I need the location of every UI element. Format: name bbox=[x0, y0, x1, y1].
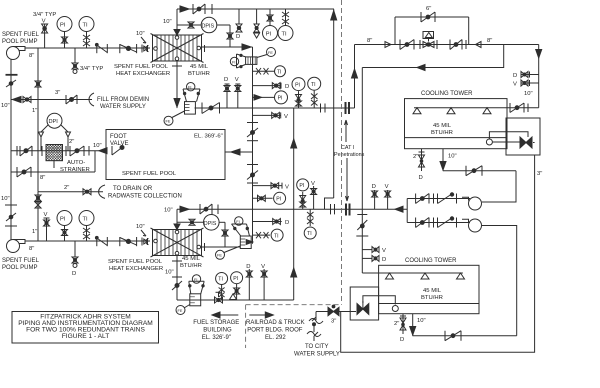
branch valve on x=38 drop bbox=[35, 48, 41, 100]
instrument TI above y=108 header bbox=[308, 77, 321, 108]
flow element FE (train1 collector) bbox=[257, 48, 276, 58]
svg-text:FE: FE bbox=[268, 51, 273, 55]
dashed building boundary vertical x=341 bbox=[341, 0, 343, 305]
bypass riser rejoin bbox=[94, 151, 96, 172]
arrow into HX2 top bbox=[180, 206, 189, 212]
wire: 10" header to strainer bbox=[11, 99, 92, 101]
x=38 drop to line 2 with valves bbox=[35, 192, 41, 241]
svg-text:DPIS: DPIS bbox=[204, 221, 217, 227]
svg-text:10": 10" bbox=[524, 91, 533, 97]
wire: main line 2 pump to HX2 bbox=[25, 240, 150, 242]
foot valve symbol inside pool bbox=[112, 146, 124, 156]
flanges on train2 header at x=330 bbox=[331, 204, 335, 214]
reducer into HX2 bbox=[142, 238, 149, 246]
svg-text:10": 10" bbox=[1, 196, 10, 202]
svg-text:SPENT FUEL POOL: SPENT FUEL POOL bbox=[114, 64, 169, 70]
arrow left on discharge header bbox=[395, 206, 403, 212]
arrow toward strainer bbox=[99, 148, 107, 154]
instrument TI above y=297.7 bbox=[216, 273, 228, 301]
bypass 6" line bbox=[395, 12, 469, 45]
svg-text:2": 2" bbox=[413, 154, 418, 160]
wire: down to pump1 suction bbox=[482, 171, 516, 202]
svg-text:WATER SUPPLY: WATER SUPPLY bbox=[294, 352, 340, 358]
label: FILL FROM DEMIN WATER SUPPLY bbox=[97, 97, 149, 110]
svg-text:PI: PI bbox=[276, 197, 281, 203]
wire: strainer main line bbox=[11, 150, 106, 152]
valve on 10" header bbox=[23, 97, 31, 103]
fill line gate valve bbox=[66, 95, 77, 104]
svg-text:D: D bbox=[285, 84, 289, 90]
wire: supply riser x=354.5 bbox=[354, 45, 356, 109]
spent fuel pool pump 1 bbox=[7, 47, 26, 60]
label 10" HX2 inlet bbox=[136, 224, 146, 236]
svg-text:PI: PI bbox=[299, 183, 304, 189]
stub D on top header bbox=[236, 9, 242, 40]
label: AUTO-STRAINER bbox=[60, 160, 90, 173]
svg-text:PI: PI bbox=[60, 23, 66, 29]
wire: HX1 top return riser bbox=[176, 9, 178, 34]
svg-text:FIGURE 1 - ALT: FIGURE 1 - ALT bbox=[62, 333, 110, 340]
V stub at y=115.4 bbox=[253, 112, 289, 120]
D stub on x=538.7 bbox=[513, 72, 539, 80]
pump1 discharge valves bbox=[407, 193, 470, 204]
wire: top return header y=9 bbox=[177, 8, 334, 10]
instrument TI on top header bbox=[278, 9, 293, 41]
svg-text:D: D bbox=[246, 264, 250, 270]
flange below valve bbox=[356, 235, 368, 237]
svg-text:BTU/HR: BTU/HR bbox=[180, 263, 202, 269]
svg-text:3": 3" bbox=[537, 171, 542, 177]
svg-text:D: D bbox=[400, 337, 404, 343]
wire: tower2 loop riser x=516.7 bbox=[482, 226, 517, 336]
junction node on line 2 bbox=[95, 236, 98, 239]
spent fuel pool pump 2 bbox=[7, 240, 26, 253]
svg-text:10": 10" bbox=[163, 19, 172, 25]
svg-text:D: D bbox=[372, 184, 376, 190]
svg-text:10": 10" bbox=[448, 154, 457, 160]
vent V above y=209.2 header bbox=[311, 181, 317, 209]
svg-text:WATER SUPPLY: WATER SUPPLY bbox=[100, 104, 146, 110]
wire: discharge riser x=293.7 bbox=[293, 108, 295, 300]
penetration sleeve on y=108 bbox=[346, 102, 350, 114]
globe valve with stem on y=297.7 bbox=[215, 292, 223, 303]
svg-text:V: V bbox=[382, 248, 386, 254]
instrument PI above y=209.2 header bbox=[297, 179, 309, 209]
title box bbox=[12, 312, 159, 344]
label: CAT I Penetrations with leader arrows bbox=[334, 145, 365, 158]
svg-text:EL. 326'-9": EL. 326'-9" bbox=[202, 335, 231, 341]
flange on header bbox=[211, 4, 213, 14]
flow arrows on riser x=293.7 bbox=[291, 139, 297, 148]
svg-text:D: D bbox=[419, 175, 423, 181]
arrow right (railroad side) bbox=[249, 312, 273, 318]
svg-text:V: V bbox=[235, 77, 239, 83]
D stub at y=221.5 bbox=[253, 219, 290, 227]
svg-text:HEAT EXCHANGER: HEAT EXCHANGER bbox=[116, 71, 170, 77]
arrow left on 10" header bbox=[13, 97, 22, 103]
V stub at y=185.6 bbox=[253, 183, 290, 191]
label: 45 MIL BTU/HR (tower2) bbox=[421, 288, 443, 301]
dashed boundary horizontal y=286 bbox=[246, 304, 342, 306]
svg-text:2": 2" bbox=[64, 185, 69, 191]
svg-text:POOL PUMP: POOL PUMP bbox=[2, 39, 37, 45]
svg-text:8": 8" bbox=[40, 175, 45, 181]
svg-text:TI: TI bbox=[282, 32, 287, 38]
control valve with actuator bbox=[420, 32, 437, 50]
PI sample line at y=97.4 bbox=[253, 91, 288, 104]
pipe break symbol on line 1 bbox=[97, 44, 108, 53]
svg-text:TO CITY: TO CITY bbox=[305, 344, 329, 350]
HX1 bottom outlet with flow element bbox=[174, 60, 180, 108]
svg-text:V: V bbox=[284, 114, 288, 120]
strainer bypass line bbox=[11, 171, 95, 173]
svg-text:TI: TI bbox=[83, 217, 88, 223]
svg-text:D: D bbox=[513, 73, 517, 79]
svg-text:8": 8" bbox=[29, 53, 34, 59]
jog connecting return header to train2 header bbox=[325, 198, 334, 209]
flow element FE (HX1 bottom) bbox=[164, 111, 185, 125]
flow indicator FI (HX2 outlet) bbox=[232, 217, 252, 249]
reducer on supply header bbox=[385, 42, 391, 48]
wire: HX1 outlet right to collector bbox=[202, 46, 253, 48]
label: FUEL STORAGE BUILDING EL. 326'-9" bbox=[193, 320, 239, 341]
svg-text:PI: PI bbox=[60, 217, 66, 223]
gate valve after strainer bbox=[70, 146, 84, 156]
svg-text:V: V bbox=[513, 82, 517, 88]
svg-text:BTU/HR: BTU/HR bbox=[188, 71, 210, 77]
label: SPENT FUEL POOL PUMP (upper) bbox=[2, 32, 40, 45]
svg-text:TI: TI bbox=[307, 231, 312, 237]
svg-text:SPENT FUEL: SPENT FUEL bbox=[2, 258, 40, 264]
svg-text:D: D bbox=[224, 77, 228, 83]
auto-strainer bbox=[42, 145, 66, 169]
brace to FILL FROM DEMIN bbox=[89, 93, 94, 106]
cooling tower 1 bbox=[405, 99, 539, 149]
dashed boundary vertical x=244.3 bbox=[245, 305, 247, 348]
valve on tower1 inlet bbox=[510, 103, 528, 113]
tower1 2" drain bbox=[413, 149, 425, 181]
gate valve on supply bbox=[400, 40, 414, 50]
flow indicator FI (HX2 bottom) bbox=[189, 275, 205, 306]
svg-text:HEAT EXCHANGER: HEAT EXCHANGER bbox=[109, 266, 163, 272]
svg-text:3/4" TYP: 3/4" TYP bbox=[80, 66, 103, 72]
D stub above y=108 header bbox=[224, 77, 230, 108]
TI capillary stub at y=235.1 bbox=[253, 229, 284, 241]
seismic triangle on y=297.7 bbox=[230, 294, 237, 300]
svg-text:SPENT FUEL: SPENT FUEL bbox=[2, 32, 40, 38]
svg-text:V: V bbox=[285, 185, 289, 191]
collector isolation valves and pool branch bbox=[247, 123, 258, 184]
V/D stubs on tower2 supply bbox=[362, 247, 386, 263]
pipe break symbol on line 2 bbox=[97, 237, 108, 246]
svg-text:1": 1" bbox=[32, 229, 37, 235]
junction node on line 1 bbox=[95, 43, 98, 46]
wire: x=38 drop continues to strainer line bbox=[37, 100, 39, 151]
wire: main line 1 pump to HX1 bbox=[25, 47, 150, 49]
label: RAILROAD & TRUCK PORT BLDG. ROOF EL. 292 bbox=[246, 320, 305, 341]
label: TO CITY WATER SUPPLY bbox=[294, 344, 340, 358]
svg-text:2": 2" bbox=[69, 139, 74, 145]
svg-text:TO DRAIN OR: TO DRAIN OR bbox=[113, 186, 153, 192]
flow element FE (HX2 outlet) bbox=[216, 246, 241, 259]
svg-text:FI: FI bbox=[232, 60, 235, 64]
svg-text:FE: FE bbox=[166, 120, 171, 124]
heat exchanger 1 (SPENT FUEL POOL HEAT EXCHANGER) bbox=[148, 30, 205, 67]
label: 45 MIL BTU/HR (HX2) bbox=[180, 256, 202, 269]
svg-text:V: V bbox=[311, 181, 315, 187]
V stub above y=108 header bbox=[235, 77, 241, 108]
svg-text:CAT I: CAT I bbox=[341, 145, 354, 151]
flow arrow down bbox=[536, 50, 542, 59]
HX2 bottom outlet bbox=[172, 255, 182, 300]
arrow into HX1 top bbox=[180, 6, 189, 12]
vent stub V 1" on line 2 bbox=[44, 212, 50, 241]
svg-text:10": 10" bbox=[165, 270, 174, 276]
valve on top return header bbox=[193, 4, 205, 14]
V stub on x=538.7 bbox=[513, 80, 539, 88]
svg-text:TI: TI bbox=[277, 69, 281, 75]
arrow left on y=67.5 bbox=[417, 65, 425, 71]
tower2 2" drain bbox=[394, 314, 406, 343]
instrument PI above y=297.7 bbox=[231, 272, 243, 300]
wire: HX2 outlet right bbox=[202, 246, 240, 248]
wire: HX1 return riser x=333.7 bbox=[333, 9, 335, 198]
flow element FE (HX2 bottom) bbox=[176, 305, 190, 315]
svg-text:8": 8" bbox=[367, 38, 372, 44]
svg-text:D: D bbox=[236, 34, 240, 40]
tower1 makeup sub-box bbox=[489, 118, 540, 155]
svg-text:POOL PUMP: POOL PUMP bbox=[2, 265, 37, 271]
gate valve before strainer bbox=[20, 146, 32, 156]
flange pair on y=108 bbox=[321, 104, 326, 113]
wire: into tower2 deck bbox=[362, 272, 463, 274]
arrow on HX1 outlet bbox=[242, 44, 251, 50]
svg-text:TI: TI bbox=[83, 23, 88, 29]
svg-text:10": 10" bbox=[93, 143, 102, 149]
svg-text:D: D bbox=[72, 271, 76, 277]
flow indicator FI (HX1 bottom) bbox=[183, 83, 200, 115]
label 10" at HX1 inlet with leader arrow bbox=[136, 31, 146, 43]
drain stub D below line 2 bbox=[72, 241, 78, 277]
instrument DPI over strainer bbox=[39, 113, 71, 151]
svg-text:V: V bbox=[42, 19, 46, 25]
arrow left (fuel storage side) bbox=[212, 312, 238, 318]
brace to drain text bbox=[99, 185, 105, 198]
svg-text:PI: PI bbox=[266, 32, 272, 38]
TI capillary stub at y=71 bbox=[253, 66, 286, 77]
flange bbox=[217, 205, 219, 215]
flow element box on collector (train1) bbox=[246, 57, 257, 65]
spent fuel pool box bbox=[106, 130, 225, 180]
D stub at y=85.6 bbox=[253, 83, 290, 90]
instrument PI on top header bbox=[263, 9, 278, 41]
svg-text:FUEL STORAGE: FUEL STORAGE bbox=[193, 320, 239, 326]
svg-text:FE: FE bbox=[178, 309, 183, 313]
svg-text:V: V bbox=[385, 184, 389, 190]
svg-text:8": 8" bbox=[29, 246, 34, 252]
flange bbox=[465, 40, 467, 49]
wire: supply header y=44.5 bbox=[355, 44, 539, 46]
svg-text:10": 10" bbox=[1, 103, 10, 109]
wire: pool inlet line y=152 bbox=[225, 149, 253, 155]
branch to second tower: drop at x=503.7 bbox=[362, 45, 503, 68]
svg-text:10": 10" bbox=[136, 31, 145, 37]
svg-text:COOLING TOWER: COOLING TOWER bbox=[421, 91, 473, 97]
pump2 discharge valves bbox=[407, 199, 470, 228]
squiggle break TO CITY WATER SUPPLY bbox=[307, 312, 323, 342]
heat exchanger 2 bbox=[148, 224, 205, 261]
title text bbox=[18, 314, 153, 341]
wire: tower1 outlet bbox=[440, 149, 516, 171]
svg-text:RAILROAD & TRUCK: RAILROAD & TRUCK bbox=[246, 320, 305, 326]
instrument TI on line 1 bbox=[79, 17, 94, 49]
wire: pump2 suction from above bbox=[10, 172, 12, 240]
relief valve stub on top header bbox=[254, 9, 260, 38]
tower2 makeup sub-box bbox=[350, 287, 395, 320]
label: 45 MIL BTU/HR (HX1) bbox=[188, 64, 210, 77]
gate valve pump2 suction bbox=[6, 213, 16, 221]
circulating water pump 2 (right) bbox=[462, 219, 482, 232]
wire: train2 return header y=209.2 bbox=[177, 208, 407, 210]
svg-text:10": 10" bbox=[164, 208, 173, 214]
flange on HX2 outlet bbox=[204, 243, 206, 251]
label: SPENT FUEL POOL PUMP (lower) bbox=[2, 258, 40, 271]
drain stub D 3/4" TYP below line 1 bbox=[72, 48, 78, 74]
flow arrow up on riser bbox=[352, 69, 358, 78]
svg-text:TI: TI bbox=[274, 233, 279, 239]
flange bbox=[16, 146, 18, 156]
flanges pump2 suction bbox=[5, 205, 17, 226]
label: SPENT FUEL POOL HEAT EXCHANGER (upper) bbox=[114, 64, 170, 77]
gate valve on y=108 bbox=[202, 103, 220, 114]
flow indicator FI (train1 collector) bbox=[230, 54, 245, 68]
svg-text:45 MIL: 45 MIL bbox=[182, 256, 201, 262]
svg-text:FILL FROM DEMIN: FILL FROM DEMIN bbox=[97, 97, 149, 103]
svg-text:RADWASTE COLLECTION: RADWASTE COLLECTION bbox=[108, 194, 182, 200]
DPIS loop over HX1 bbox=[177, 17, 233, 47]
svg-text:SPENT FUEL POOL: SPENT FUEL POOL bbox=[122, 171, 177, 177]
svg-text:10": 10" bbox=[136, 224, 145, 230]
svg-text:TI: TI bbox=[311, 82, 316, 88]
svg-text:1": 1" bbox=[32, 108, 37, 114]
svg-text:COOLING TOWER: COOLING TOWER bbox=[405, 258, 457, 264]
svg-text:8": 8" bbox=[487, 38, 492, 44]
label: 45 MIL BTU/HR (tower1) bbox=[431, 123, 453, 136]
svg-text:10": 10" bbox=[417, 318, 426, 324]
D/V stubs above discharge header bbox=[372, 184, 391, 209]
gate valve on tower2 outlet bbox=[445, 331, 461, 341]
svg-text:AUTO-: AUTO- bbox=[67, 160, 85, 166]
svg-text:PI: PI bbox=[233, 276, 238, 282]
wire: HX2 top return riser bbox=[176, 209, 178, 229]
svg-text:FOOT: FOOT bbox=[110, 134, 127, 140]
svg-text:SPENT FUEL POOL: SPENT FUEL POOL bbox=[108, 259, 163, 265]
instrument PI on line 1 bbox=[57, 17, 72, 49]
instrument TI on line 2 bbox=[79, 211, 94, 242]
label: FOOT VALVE bbox=[110, 134, 128, 147]
svg-text:D: D bbox=[285, 220, 289, 226]
svg-text:2": 2" bbox=[394, 321, 399, 327]
city water globe valve 3" bbox=[316, 305, 356, 324]
vent valve V 3/4" TYP on line 1 bbox=[42, 24, 48, 48]
svg-text:TI: TI bbox=[218, 277, 223, 283]
TI capillary below y=209.2 header bbox=[304, 209, 316, 239]
arrow HX2 outlet into collector bbox=[246, 240, 253, 245]
svg-text:PI: PI bbox=[295, 82, 300, 88]
bypass gate valve bbox=[17, 167, 31, 177]
svg-text:45 MIL: 45 MIL bbox=[190, 64, 209, 70]
svg-text:PORT BLDG. ROOF: PORT BLDG. ROOF bbox=[247, 328, 302, 334]
cooling tower 2 bbox=[379, 265, 479, 313]
flange on pump1 suction bbox=[6, 74, 18, 76]
svg-text:BTU/HR: BTU/HR bbox=[431, 130, 453, 136]
label: TO DRAIN OR RADWASTE COLLECTION bbox=[108, 186, 182, 200]
PI stub at y=198.3 bbox=[253, 192, 286, 204]
2" drain to radwaste bbox=[38, 151, 103, 195]
label: SPENT FUEL POOL HEAT EXCHANGER (lower) bbox=[108, 259, 163, 272]
svg-text:V: V bbox=[44, 212, 48, 218]
reducer into HX1 bbox=[142, 45, 149, 53]
gate valve with dot on line 2 bbox=[120, 237, 137, 246]
svg-text:3": 3" bbox=[331, 319, 336, 325]
svg-text:BTU/HR: BTU/HR bbox=[421, 295, 443, 301]
gate valve on tower1 outlet bbox=[466, 166, 482, 176]
check valve bbox=[476, 42, 482, 48]
wire: train1 lower header y=108 bbox=[195, 107, 355, 109]
flow arrow up on x=333.7 bbox=[331, 11, 337, 21]
svg-text:6": 6" bbox=[426, 6, 431, 12]
wire: tower1 feed drop x=538.7 bbox=[538, 45, 540, 108]
flange bbox=[88, 146, 90, 156]
svg-text:FE: FE bbox=[217, 254, 222, 258]
svg-text:VALVE: VALVE bbox=[110, 141, 128, 147]
svg-text:D: D bbox=[382, 257, 386, 263]
svg-text:EL. 369'-6": EL. 369'-6" bbox=[194, 134, 223, 140]
wire: left drop to strainer bbox=[10, 100, 12, 173]
wire: train2 lower header y=297.7 bbox=[177, 299, 294, 301]
penetration sleeve on y=200 bbox=[346, 204, 350, 216]
gate valve on tower2 supply bbox=[357, 215, 367, 231]
svg-text:3/4" TYP: 3/4" TYP bbox=[33, 12, 56, 18]
D/V stubs above y=297.7 bbox=[246, 264, 267, 300]
label 3/4" TYP and V bbox=[33, 12, 56, 25]
svg-text:EL. 292: EL. 292 bbox=[265, 335, 286, 341]
wire: collector vertical x=252.5 bbox=[252, 47, 254, 244]
svg-text:PI: PI bbox=[278, 96, 283, 102]
wire: tower2 outlet bbox=[410, 314, 517, 336]
svg-text:3": 3" bbox=[55, 90, 60, 96]
instrument PI above y=108 header bbox=[292, 78, 305, 108]
svg-text:DPIS: DPIS bbox=[202, 24, 215, 30]
circulating water pump 1 (right) bbox=[462, 197, 482, 210]
wire: city water down and across bottom bbox=[341, 155, 535, 352]
svg-text:FI: FI bbox=[236, 220, 239, 224]
instrument PI on line 2 bbox=[57, 211, 72, 242]
svg-text:45 MIL: 45 MIL bbox=[433, 123, 452, 129]
gate valve with dot on line 1 bbox=[120, 44, 137, 53]
valve (gate) on pump1 suction bbox=[6, 80, 16, 87]
svg-text:BUILDING: BUILDING bbox=[203, 328, 232, 334]
svg-text:Penetrations: Penetrations bbox=[334, 152, 365, 158]
wire: pump1 suction drop bbox=[10, 60, 12, 100]
gate valve after bypass bbox=[450, 40, 462, 50]
valve on return header y=209.2 bbox=[200, 204, 212, 214]
svg-text:45 MIL: 45 MIL bbox=[423, 288, 442, 294]
svg-text:DPI: DPI bbox=[49, 119, 59, 125]
DPIS loop over HX2 bbox=[177, 215, 228, 248]
wire: tower2 supply drop x=361.5 bbox=[361, 68, 363, 274]
